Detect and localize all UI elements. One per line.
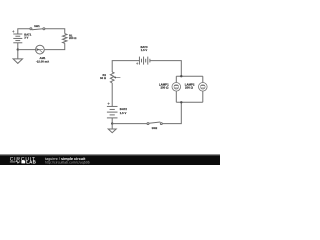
label LAMP2 value xyxy=(185,83,195,89)
wire node to ammeter xyxy=(18,49,36,51)
wire BAT3 to lamp feed xyxy=(150,61,181,77)
switch SW2 xyxy=(147,122,162,125)
potentiometer R2 xyxy=(110,72,120,83)
svg-text:BAT2: BAT2 xyxy=(120,108,127,111)
wire ammeter to R1 xyxy=(44,43,64,49)
wire R2 to BAT2 xyxy=(111,83,113,106)
label SW2 xyxy=(152,127,158,130)
svg-text:http://circuitlab.com/c/uq59b: http://circuitlab.com/c/uq59b xyxy=(45,161,90,165)
battery BAT1 xyxy=(13,34,22,43)
wire lamp box top xyxy=(176,75,203,77)
wire SW2 to lamp return xyxy=(162,102,181,123)
footer title text xyxy=(45,157,86,161)
svg-text:50 Ω: 50 Ω xyxy=(100,77,106,80)
resistor R1 xyxy=(63,34,67,44)
ground right xyxy=(108,124,116,133)
node lamp box top xyxy=(180,75,182,77)
node junction BAT2 bottom xyxy=(111,122,113,124)
svg-text:-15.00 mA: -15.00 mA xyxy=(36,60,49,63)
wire top-left circuit left segment xyxy=(18,29,30,34)
label LAMP1 value xyxy=(159,83,169,89)
battery BAT2 xyxy=(107,106,118,118)
label BAT1 value xyxy=(24,33,31,39)
BAT1 plus sign xyxy=(12,30,14,32)
wire lamp box bottom xyxy=(176,101,203,103)
label R2 value xyxy=(100,74,106,80)
svg-text:LAB: LAB xyxy=(26,160,36,165)
ground left xyxy=(13,50,22,64)
svg-text:BAT1: BAT1 xyxy=(24,33,31,36)
battery BAT3 xyxy=(139,57,150,65)
svg-text:BAT3: BAT3 xyxy=(140,46,147,49)
lamp LAMP2 xyxy=(199,76,208,102)
lamp LAMP1 xyxy=(172,76,181,102)
logo CircuitLab LAB row xyxy=(10,160,36,165)
ammeter AM1 xyxy=(36,45,45,54)
svg-text:R1: R1 xyxy=(69,34,73,37)
svg-text:200 Ω: 200 Ω xyxy=(185,86,193,89)
switch SW1 xyxy=(30,28,45,30)
svg-text:1.5 V: 1.5 V xyxy=(120,112,127,115)
svg-text:LAMP1: LAMP1 xyxy=(159,83,169,86)
svg-text:1.5 V: 1.5 V xyxy=(141,49,148,52)
svg-text:SW2: SW2 xyxy=(152,127,158,130)
svg-text:LAMP2: LAMP2 xyxy=(185,83,195,86)
footer bar xyxy=(0,154,220,156)
label BAT3 value xyxy=(140,46,147,52)
wire top-left circuit right segment xyxy=(45,29,65,34)
footer url text xyxy=(45,161,90,165)
wire BAT2 bottom to node xyxy=(111,118,113,124)
BAT3 plus sign xyxy=(136,62,138,64)
svg-text:taguirre / simple circuit: taguirre / simple circuit xyxy=(45,157,86,161)
label AM1 value xyxy=(36,57,49,63)
wire right circuit top-left xyxy=(112,61,139,72)
node junction left circuit xyxy=(17,48,19,50)
BAT2 plus sign xyxy=(108,103,110,105)
node lamp box bottom xyxy=(180,101,182,103)
svg-text:200 Ω: 200 Ω xyxy=(160,86,168,89)
svg-text:SW1: SW1 xyxy=(34,25,40,28)
svg-text:AM1: AM1 xyxy=(40,57,46,60)
label BAT2 value xyxy=(120,108,127,115)
wire node to SW2 xyxy=(112,123,147,125)
svg-text:200 Ω: 200 Ω xyxy=(69,37,76,40)
label SW1 xyxy=(34,25,40,28)
label R1 value xyxy=(69,34,76,40)
logo CircuitLab wordmark xyxy=(10,156,36,162)
svg-text:3 V: 3 V xyxy=(24,36,28,39)
wire BAT1 bottom to node xyxy=(17,43,19,50)
